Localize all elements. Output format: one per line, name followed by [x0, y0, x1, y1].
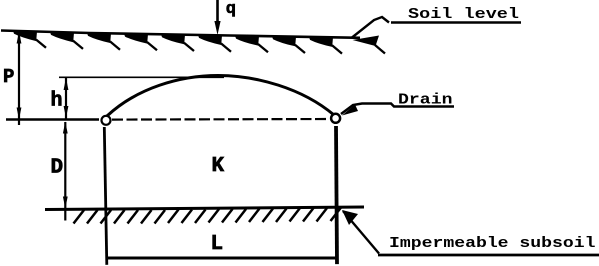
- svg-text:D: D: [51, 157, 64, 180]
- svg-text:Impermeable subsoil: Impermeable subsoil: [389, 235, 596, 252]
- svg-text:L: L: [211, 233, 224, 256]
- svg-text:Soil level: Soil level: [408, 6, 519, 23]
- svg-text:P: P: [3, 66, 14, 88]
- svg-text:K: K: [212, 155, 225, 178]
- svg-text:Drain: Drain: [398, 91, 453, 108]
- svg-text:q: q: [226, 0, 236, 19]
- svg-text:h: h: [51, 90, 63, 113]
